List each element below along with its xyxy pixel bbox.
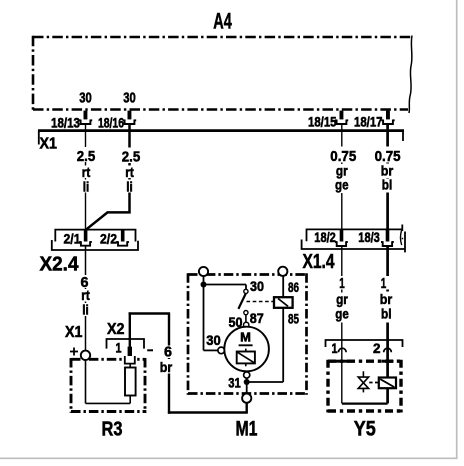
svg-text:ge: ge: [335, 177, 349, 193]
svg-text:18/15: 18/15: [308, 115, 337, 130]
svg-text:X2: X2: [107, 321, 125, 338]
svg-text:br: br: [160, 359, 173, 375]
svg-text:A4: A4: [213, 9, 232, 34]
svg-text:Y5: Y5: [354, 418, 376, 441]
svg-text:M1: M1: [236, 418, 258, 441]
svg-text:2: 2: [373, 340, 381, 356]
svg-text:X1: X1: [65, 324, 83, 341]
svg-text:30: 30: [123, 91, 136, 107]
svg-text:2/2: 2/2: [100, 231, 117, 247]
svg-text:bl: bl: [382, 177, 393, 193]
svg-text:18/2: 18/2: [314, 230, 336, 245]
svg-text:1: 1: [332, 340, 338, 356]
svg-text:ge: ge: [335, 306, 349, 322]
svg-text:30: 30: [206, 332, 221, 348]
svg-text:18/3: 18/3: [358, 230, 380, 245]
svg-text:2/1: 2/1: [64, 231, 81, 247]
svg-text:18/17: 18/17: [354, 115, 383, 130]
svg-text:18/13: 18/13: [51, 116, 80, 131]
svg-text:1: 1: [339, 275, 345, 292]
svg-text:6: 6: [164, 344, 172, 361]
svg-text:X2.4: X2.4: [40, 254, 80, 276]
svg-text:87: 87: [250, 310, 264, 326]
svg-text:M: M: [240, 329, 251, 344]
svg-text:31: 31: [228, 375, 241, 391]
svg-text:li: li: [82, 302, 89, 318]
svg-text:li: li: [83, 179, 90, 195]
svg-text:30: 30: [79, 91, 92, 107]
svg-text:bl: bl: [381, 306, 392, 322]
svg-text:30: 30: [250, 278, 264, 294]
svg-text:85: 85: [288, 311, 299, 327]
svg-text:2.5: 2.5: [122, 149, 141, 166]
svg-text:1: 1: [116, 340, 122, 356]
svg-text:li: li: [126, 179, 133, 195]
svg-text:X1.4: X1.4: [303, 251, 336, 273]
svg-text:X1: X1: [40, 136, 58, 153]
svg-text:86: 86: [288, 279, 299, 295]
svg-text:18/16: 18/16: [98, 116, 124, 131]
svg-text:R3: R3: [102, 419, 123, 441]
svg-text:2.5: 2.5: [77, 148, 96, 165]
svg-text:1: 1: [381, 275, 387, 292]
